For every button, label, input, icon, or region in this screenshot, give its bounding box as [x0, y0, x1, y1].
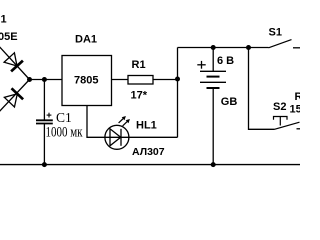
wire battery top lead: [212, 48, 214, 72]
LED HL1 triangle: [110, 129, 121, 146]
capacitor C1 plus sign: [47, 113, 52, 118]
svg-text:1000 мк: 1000 мк: [46, 125, 84, 141]
battery plus sign: [197, 61, 205, 69]
wire vertical rail: [177, 48, 179, 138]
svg-text:DA1: DA1: [75, 34, 97, 46]
LED HL1 circle: [105, 125, 129, 149]
svg-text:6 В: 6 В: [217, 55, 234, 67]
svg-text:15: 15: [290, 104, 301, 116]
capacitor C1 plates: [36, 120, 53, 123]
node: diode junction: [27, 77, 32, 82]
pushbutton S2 lever: [275, 122, 300, 129]
LED HL1 wire through: [105, 136, 129, 138]
switch S1 right contact: [293, 47, 300, 49]
svg-text:17*: 17*: [131, 90, 148, 102]
node: battery bottom: [211, 162, 216, 167]
svg-text:С1: С1: [56, 110, 72, 125]
battery GB plates: [200, 71, 226, 88]
wire C1 bottom lead: [43, 124, 45, 165]
wire (lower diode branch): [0, 80, 30, 115]
pushbutton S2 actuator cap: [274, 117, 288, 120]
node: battery top tap: [211, 45, 216, 50]
svg-text:R1: R1: [132, 59, 146, 71]
svg-text:7805: 7805: [74, 75, 98, 87]
diode VD1.1: [3, 52, 23, 71]
pushbutton S2 right contact: [297, 128, 301, 130]
node: rail junction: [175, 77, 180, 82]
wire DA1 to R1: [112, 79, 129, 81]
wire to DA1: [30, 79, 63, 81]
resistor R1: [128, 76, 153, 85]
node: C1 bottom: [42, 162, 47, 167]
wire R1 to rail: [153, 79, 178, 81]
pushbutton S2 actuator stem: [279, 117, 281, 126]
wire LED to rail: [129, 136, 178, 138]
svg-text:S2: S2: [273, 101, 286, 113]
LED HL1 cathode bar: [120, 129, 122, 146]
svg-text:R: R: [295, 91, 301, 103]
LED arrows: [119, 116, 130, 126]
op-amp/regulator DA1 box: [62, 56, 112, 106]
svg-text:АЛ307: АЛ307: [132, 146, 165, 158]
wire S1 tap down to S2: [249, 48, 275, 130]
diode VD1.2: [4, 88, 24, 107]
svg-text:1: 1: [1, 14, 7, 26]
node: S1 tap: [246, 45, 251, 50]
node: C1 tap: [42, 77, 47, 82]
wire bottom rail: [0, 164, 300, 166]
wire top rail: [178, 47, 269, 49]
wire (upper diode branch): [0, 44, 30, 80]
wire DA1 ground pin: [87, 106, 105, 138]
svg-text:S1: S1: [269, 26, 282, 38]
wire C1 top lead: [43, 80, 45, 120]
svg-text:05Е: 05Е: [0, 31, 18, 43]
switch S1 lever: [269, 40, 292, 48]
wire battery bottom lead: [212, 88, 214, 165]
svg-text:HL1: HL1: [136, 120, 157, 132]
svg-text:GB: GB: [221, 96, 238, 108]
